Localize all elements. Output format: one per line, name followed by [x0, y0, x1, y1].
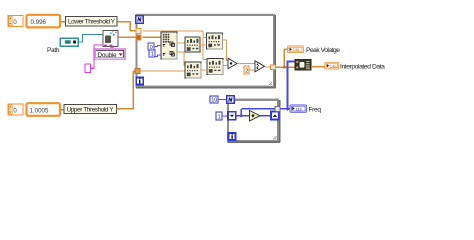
wire: tunnel D to interpolate icon / branch to peak voltage: [276, 49, 295, 67]
numeric control 0.996: [27, 15, 61, 28]
interpolate icon: [295, 59, 311, 70]
wire: interpolate to interpolated data terminal: [311, 66, 325, 68]
for-loop 2 count terminal N: [227, 96, 234, 103]
subVI icon 2: [207, 33, 223, 49]
subVI icon 3: [185, 62, 201, 78]
indicator terminal Freq (I32): [290, 105, 307, 112]
wire: divide to tunnel D: [265, 66, 271, 68]
wire: blue from interpolate down to freq junction: [288, 62, 296, 110]
tunnel D (loop1 right border, hollow): [271, 65, 276, 70]
svg-text:Interpolated Data: Interpolated Data: [340, 64, 385, 71]
svg-text:Freq: Freq: [309, 107, 322, 114]
numeric constant 10: [210, 96, 218, 104]
left shift register: [228, 112, 236, 120]
wire: icon4 to multiply: [223, 65, 228, 67]
path control: [60, 38, 78, 46]
multiply function: [228, 58, 237, 68]
for-loop 1 border: [136, 14, 276, 88]
numeric control 1.0005: [27, 103, 61, 116]
subVI icon 1: [185, 37, 201, 53]
wire: path control to file VI: [78, 35, 103, 43]
indicator terminal Interpolated Data (DBL): [325, 62, 339, 69]
for-loop 2 border: [227, 99, 280, 143]
wire: const 0 to index array: [154, 45, 161, 46]
numeric constant 0 (bottom): [8, 104, 23, 115]
string constant (pink): [85, 64, 91, 73]
numeric constant 0 (top): [8, 16, 23, 27]
svg-text:1: 1: [218, 114, 221, 120]
svg-text:Double: Double: [98, 52, 117, 59]
wire: index array row0 to icon1: [177, 42, 185, 44]
wire: shift register to increment, junction up to tunnel: [236, 109, 275, 116]
wire A: tunnel A right, down at x203, to icon2 and icon4: [143, 31, 208, 60]
blue constant 1: [149, 50, 155, 58]
wire C: tunnel C to icon3 lower input: [140, 70, 185, 72]
svg-text:0.996: 0.996: [31, 19, 47, 26]
wire: constant 2 to divide: [250, 69, 256, 71]
wire: icon3 to icon4: [201, 69, 207, 71]
svg-text:Peak Volatge: Peak Volatge: [306, 47, 340, 54]
wire: 1 to left shift register: [222, 115, 228, 117]
svg-text:DBL: DBL: [330, 64, 339, 69]
wire: 10 to N: [218, 99, 227, 101]
svg-text:10: 10: [211, 98, 217, 104]
wire: upper threshold label to tunnel C: [117, 71, 137, 109]
svg-text:I32: I32: [296, 107, 303, 112]
wire B: tunnel B to index array: [143, 36, 162, 38]
subVI icon 4: [207, 59, 223, 75]
svg-text:2: 2: [245, 68, 248, 74]
wire: string constant to file VI: [91, 45, 104, 68]
tunnel A (hollow): [136, 29, 141, 34]
wire: icon2 to multiply: [223, 40, 229, 60]
wire: multiply to divide: [237, 63, 255, 65]
numeric constant 2: [244, 66, 249, 75]
svg-text:Path: Path: [47, 47, 60, 54]
wire: const 1 to index array: [154, 55, 161, 56]
blue constant 0: [148, 43, 154, 51]
svg-text:DBL: DBL: [293, 47, 302, 52]
wire: lower threshold to loop tunnel A: [60, 22, 137, 31]
svg-text:1.0005: 1.0005: [30, 108, 49, 115]
for-loop 2 iteration terminal i: [229, 133, 236, 140]
numeric constant 1 (loop2): [216, 112, 222, 120]
divide function: [255, 61, 265, 72]
wire: index array row1 down to icon3: [177, 52, 186, 66]
tunnel E (loop2 right border): [275, 106, 280, 111]
label Lower Threshold Y: [66, 17, 118, 26]
for-loop 1 iteration terminal i: [136, 78, 143, 85]
for-loop 2 resize glyph: [273, 136, 278, 141]
indicator terminal Peak Voltage (DBL): [288, 46, 304, 53]
right shift register: [271, 112, 279, 120]
ring constant Double: [94, 49, 125, 59]
svg-text:Upper Threshold Y: Upper Threshold Y: [67, 106, 115, 113]
tunnel B (solid): [136, 35, 141, 40]
increment function: [250, 111, 261, 122]
label Upper Threshold Y: [64, 104, 117, 113]
svg-text:Lower Threshold Y: Lower Threshold Y: [68, 19, 116, 26]
svg-text:1: 1: [151, 52, 154, 58]
index array function: [161, 32, 177, 59]
junction dot: [283, 66, 286, 69]
wire: increment to right shift register: [260, 115, 271, 117]
tunnel C (solid): [135, 69, 140, 74]
junction arrow: [287, 107, 290, 111]
for-loop 1 resize glyph: [268, 82, 273, 87]
for-loop 1 count terminal N: [136, 16, 143, 23]
file read VI icon: [103, 31, 118, 49]
wire: tunnel E to Freq terminal: [280, 108, 290, 110]
wire: control to upper threshold label: [60, 109, 64, 111]
wire: file VI output to tunnel B: [118, 36, 137, 38]
wire: icon1 to icon2: [200, 44, 207, 46]
